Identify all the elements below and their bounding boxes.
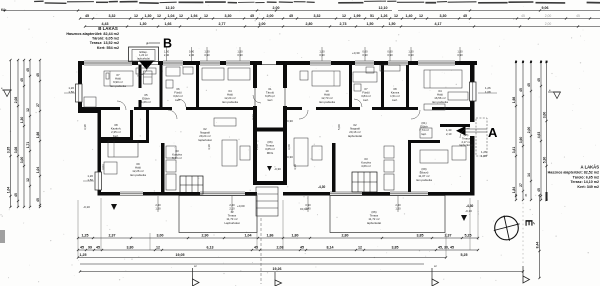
svg-text:0,90: 0,90	[408, 53, 414, 57]
svg-text:B: B	[163, 37, 172, 51]
labels 45 45 right bottom	[514, 193, 528, 197]
svg-text:2,40: 2,40	[155, 203, 161, 207]
window size labels right lower A	[481, 150, 487, 158]
window left wall upper with frame	[76, 84, 83, 102]
svg-text:45: 45	[537, 78, 541, 82]
level labels at steps	[83, 119, 472, 213]
svg-text:3,38: 3,38	[83, 124, 87, 130]
svg-text:0,90: 0,90	[319, 53, 325, 57]
svg-text:9,06: 9,06	[542, 6, 549, 10]
scan blob left edge	[0, 230, 5, 243]
svg-text:12: 12	[134, 14, 138, 18]
partition A konyha wall	[332, 143, 336, 192]
window size labels right A	[478, 86, 497, 94]
right dimension column line 1	[512, 61, 517, 201]
middle strip east wall	[283, 61, 287, 185]
svg-text:6,13: 6,13	[207, 245, 214, 249]
faint right top labels	[521, 14, 580, 26]
svg-text:45: 45	[521, 14, 525, 18]
partition A horizontal hallway	[287, 107, 470, 110]
svg-text:3,08: 3,08	[14, 147, 18, 154]
svg-text:45: 45	[524, 193, 528, 197]
dashed guide line right	[522, 190, 524, 264]
partition B between halo07 and entry	[139, 65, 142, 107]
svg-text:45: 45	[14, 193, 18, 197]
svg-text:2,37: 2,37	[445, 233, 452, 237]
svg-text:1,71: 1,71	[26, 142, 30, 149]
svg-text:14: 14	[527, 173, 531, 177]
dimension line top rooms row	[84, 22, 600, 28]
level marker small filled B terrace	[111, 204, 117, 210]
svg-text:1,99: 1,99	[354, 14, 361, 18]
left dimension column line 2	[14, 59, 19, 208]
svg-text:45: 45	[36, 73, 40, 77]
dimension line bottom segments row	[77, 245, 479, 251]
dining table B	[180, 176, 203, 194]
svg-text:+0,00: +0,00	[237, 204, 245, 208]
svg-text:1,50: 1,50	[457, 50, 463, 54]
sofa A	[294, 138, 322, 166]
svg-text:0,90: 0,90	[237, 53, 243, 57]
svg-text:+0,30: +0,30	[352, 51, 360, 55]
svg-text:-0,30: -0,30	[286, 119, 293, 123]
svg-text:4,10: 4,10	[207, 144, 211, 150]
partition A entry wall	[440, 124, 470, 127]
svg-text:0,90: 0,90	[204, 53, 210, 57]
partition B bath/halo04	[196, 65, 199, 110]
svg-text:0,90: 0,90	[387, 53, 393, 57]
svg-text:12: 12	[204, 14, 208, 18]
scan artifact top line	[34, 1, 600, 3]
svg-text:8,44: 8,44	[535, 242, 539, 249]
left dimension column line 4	[26, 59, 31, 208]
svg-text:2,40: 2,40	[164, 53, 170, 57]
svg-text:2,40: 2,40	[395, 203, 401, 207]
svg-text:12: 12	[358, 245, 362, 249]
svg-text:1,84: 1,84	[512, 187, 516, 194]
window right wall A with frame	[470, 82, 477, 101]
window middle strip west	[253, 88, 257, 106]
svg-text:45: 45	[85, 14, 89, 18]
svg-text:64: 64	[1, 8, 5, 12]
svg-text:12: 12	[26, 108, 30, 112]
right dimension column line 3	[527, 61, 532, 201]
partition B room09 wall	[101, 110, 149, 143]
svg-text:45: 45	[36, 198, 40, 202]
dimension line bottom 19,26	[79, 267, 524, 273]
svg-text:2,37: 2,37	[109, 233, 116, 237]
svg-text:99: 99	[88, 245, 92, 249]
extension guide lines	[78, 198, 478, 258]
letter B	[146, 37, 172, 51]
wardrobe A	[424, 104, 445, 110]
outer wall right (A) lower	[470, 136, 475, 196]
left dimension column line 5	[36, 59, 41, 208]
window size labels left lower	[83, 174, 94, 182]
svg-text:2,00: 2,00	[527, 127, 531, 134]
svg-text:3,32: 3,32	[314, 14, 321, 18]
svg-text:1,50: 1,50	[395, 207, 401, 211]
label 1,40 near A door	[446, 128, 452, 136]
svg-text:(05): (05)	[464, 133, 469, 137]
svg-text:3,30: 3,30	[440, 14, 447, 18]
porch A label	[459, 133, 472, 147]
svg-text:3,85: 3,85	[392, 245, 399, 249]
terrace A outline	[330, 196, 445, 233]
letter A	[488, 125, 498, 140]
bed room09 B	[108, 141, 138, 157]
kitchen counter B	[166, 146, 176, 190]
survey flag 1	[193, 264, 200, 286]
interior rotated dimensions	[83, 114, 473, 170]
svg-text:Kert: 349 m2: Kert: 349 m2	[577, 185, 599, 189]
right dimension column line 5	[542, 61, 547, 201]
svg-text:12: 12	[394, 14, 398, 18]
svg-text:12: 12	[157, 14, 161, 18]
svg-text:Kert: 554 m2: Kert: 554 m2	[97, 46, 119, 50]
svg-text:1,80: 1,80	[292, 233, 299, 237]
svg-text:2,80: 2,80	[342, 233, 349, 237]
level marker triangle right	[548, 88, 561, 99]
partition A kamra/halo04	[406, 65, 409, 110]
dimension line bottom rooms row	[77, 233, 479, 239]
terrace A label	[367, 210, 381, 225]
svg-text:5,25: 5,25	[461, 253, 468, 257]
svg-text:4,17: 4,17	[435, 22, 442, 26]
svg-text:2,08: 2,08	[277, 245, 284, 249]
svg-text:8,14: 8,14	[327, 245, 334, 249]
svg-text:0,90: 0,90	[362, 53, 368, 57]
level marker triangle left	[1, 86, 12, 97]
label 4,30 right of steps	[318, 185, 473, 208]
svg-text:12: 12	[26, 178, 30, 182]
svg-text:1,25: 1,25	[82, 233, 89, 237]
dimension line top overall right	[379, 6, 600, 12]
svg-text:0,90: 0,90	[457, 53, 463, 57]
svg-text:45: 45	[20, 78, 24, 82]
svg-text:3,85: 3,85	[417, 233, 424, 237]
svg-text:1,26: 1,26	[381, 14, 388, 18]
svg-text:1,04: 1,04	[245, 233, 252, 237]
svg-text:45: 45	[514, 193, 518, 197]
svg-text:1,50: 1,50	[408, 50, 414, 54]
svg-text:1,25: 1,25	[80, 253, 87, 257]
compass north letter	[523, 220, 536, 227]
svg-text:1,40: 1,40	[406, 14, 413, 18]
outer wall top	[78, 61, 477, 65]
svg-text:2,00: 2,00	[267, 14, 274, 18]
middle strip divider wall	[257, 128, 283, 132]
svg-text:2,00: 2,00	[545, 22, 552, 26]
bed room04 A	[424, 70, 468, 100]
room labels	[110, 73, 448, 182]
svg-text:2,77: 2,77	[219, 22, 226, 26]
svg-text:45: 45	[576, 14, 580, 18]
svg-text:É: É	[523, 220, 536, 227]
svg-text:12: 12	[342, 14, 346, 18]
svg-text:±0,00: ±0,00	[300, 207, 308, 211]
svg-text:1,98: 1,98	[512, 97, 516, 104]
svg-text:7,33: 7,33	[251, 114, 255, 120]
outer wall right (A) upper	[470, 61, 475, 122]
window size labels below bottom wall	[155, 196, 401, 212]
dimension line bottom extra	[80, 263, 424, 265]
svg-text:45: 45	[96, 245, 100, 249]
bath fixtures A	[353, 67, 377, 91]
text block A LAKAS area summary	[548, 165, 600, 190]
svg-text:Terasz: Terasz	[462, 136, 471, 140]
svg-text:0,90: 0,90	[189, 50, 195, 54]
left dimension column line 1	[6, 59, 11, 208]
door middle strip top	[262, 61, 276, 65]
dimension line top segments row	[79, 14, 600, 20]
svg-text:45: 45	[537, 188, 541, 192]
svg-text:1,30: 1,30	[145, 14, 152, 18]
svg-text:Tároló: 6,65 m2: Tároló: 6,65 m2	[573, 175, 599, 179]
svg-text:2,40: 2,40	[229, 203, 235, 207]
bed room04 B	[202, 68, 250, 80]
svg-text:19,05: 19,05	[176, 253, 185, 257]
svg-text:3,60: 3,60	[519, 137, 523, 144]
svg-text:0,60: 0,60	[362, 50, 368, 54]
svg-text:45: 45	[519, 88, 523, 92]
label 64 top left	[1, 8, 5, 12]
partition B kitchen wall	[161, 143, 165, 192]
svg-text:12,10: 12,10	[166, 6, 175, 10]
svg-text:2,80: 2,80	[306, 22, 313, 26]
svg-text:27: 27	[36, 103, 40, 107]
openings on bottom walls	[120, 192, 428, 196]
partition B kazan room	[101, 110, 133, 140]
svg-text:A LAKÁS: A LAKÁS	[581, 165, 600, 170]
svg-text:45: 45	[289, 14, 293, 18]
svg-text:12,10: 12,10	[379, 6, 388, 10]
vertical dimension 8,44	[535, 194, 540, 279]
bath fixtures B	[166, 67, 193, 88]
kamra shelves A	[380, 65, 400, 71]
svg-text:2,17 m²: 2,17 m²	[461, 140, 470, 144]
svg-text:45: 45	[527, 83, 531, 87]
svg-text:12: 12	[156, 245, 160, 249]
middle strip lower wall	[253, 181, 287, 185]
svg-text:1,80: 1,80	[255, 144, 259, 150]
svg-text:5,00: 5,00	[337, 124, 341, 130]
svg-text:45: 45	[300, 245, 304, 249]
survey flag 4	[523, 266, 530, 283]
svg-text:0,60: 0,60	[387, 50, 393, 54]
svg-text:45: 45	[254, 245, 258, 249]
survey flag 3	[432, 264, 439, 286]
entrance B canopy box	[129, 47, 159, 62]
svg-text:Hasznos alapterület: 82,52 m2: Hasznos alapterület: 82,52 m2	[548, 171, 599, 175]
svg-text:1,50: 1,50	[87, 178, 93, 182]
window size labels above top wall	[164, 47, 463, 61]
etkezo table A	[420, 146, 466, 163]
svg-text:1,50: 1,50	[68, 90, 74, 94]
outer wall step (B)	[78, 110, 101, 114]
svg-text:45: 45	[250, 14, 254, 18]
svg-text:3,03: 3,03	[101, 164, 105, 170]
svg-text:45: 45	[26, 68, 30, 72]
right dimension column line 4	[537, 61, 542, 201]
svg-text:4,30: 4,30	[293, 164, 297, 170]
svg-text:Tároló: 6,05 m2: Tároló: 6,05 m2	[92, 37, 119, 41]
svg-text:1,94: 1,94	[191, 14, 198, 18]
terrace B outline	[179, 196, 257, 233]
svg-text:Lapburkolat: Lapburkolat	[224, 221, 239, 225]
outer wall bottom B unit	[98, 192, 258, 196]
tick bar right bottom	[546, 192, 548, 201]
svg-text:3,80: 3,80	[127, 245, 134, 249]
svg-text:1,50: 1,50	[389, 22, 396, 26]
svg-text:1,30: 1,30	[20, 117, 24, 124]
svg-text:3,41: 3,41	[512, 147, 516, 154]
svg-text:12: 12	[179, 14, 183, 18]
svg-text:Terasz: 14,10 m2: Terasz: 14,10 m2	[570, 180, 599, 184]
desk room09 B	[104, 162, 117, 174]
svg-text:2,10: 2,10	[446, 132, 452, 136]
svg-text:4,63: 4,63	[537, 132, 541, 139]
svg-text:-0,10: -0,10	[465, 209, 472, 213]
svg-text:51: 51	[370, 14, 374, 18]
svg-text:-0,30: -0,30	[286, 155, 293, 159]
left dimension column line 3	[20, 59, 25, 208]
svg-text:2,40: 2,40	[189, 53, 195, 57]
svg-text:5,30: 5,30	[542, 157, 546, 164]
svg-text:1,04: 1,04	[6, 187, 10, 194]
svg-text:1,98: 1,98	[36, 132, 40, 139]
svg-text:1,30: 1,30	[140, 22, 147, 26]
partition B entry/bath	[160, 65, 163, 110]
text block B LAKAS area summary	[66, 26, 119, 50]
svg-text:2,08: 2,08	[14, 97, 18, 104]
appliance A entry	[420, 128, 432, 138]
svg-text:3,00: 3,00	[542, 112, 546, 119]
svg-text:3,30: 3,30	[225, 14, 232, 18]
svg-text:1,86: 1,86	[267, 233, 274, 237]
outer wall left upper (B)	[78, 61, 82, 113]
window left wall lower with frame	[95, 172, 102, 190]
svg-text:3,00: 3,00	[20, 157, 24, 164]
wc B	[144, 71, 153, 84]
svg-text:19,26: 19,26	[273, 267, 282, 271]
partition A etkezo wall	[408, 140, 440, 192]
partition B horizontal hallway	[82, 107, 253, 110]
svg-text:-4,30: -4,30	[466, 204, 473, 208]
door opening entrance B	[138, 61, 158, 65]
dimension line bottom 19,05	[77, 253, 468, 259]
svg-text:Hasznos alapterület: 82,44 m2: Hasznos alapterület: 82,44 m2	[66, 32, 119, 36]
right column top markers	[515, 61, 547, 63]
svg-text:-4,30: -4,30	[318, 185, 325, 189]
partition A bath/kamra	[381, 65, 384, 110]
entrance B arrow	[139, 61, 154, 70]
svg-text:1,04: 1,04	[168, 14, 175, 18]
level label +0,30	[352, 51, 360, 55]
svg-text:2,00: 2,00	[273, 6, 280, 10]
svg-text:B LAKÁS: B LAKÁS	[98, 26, 118, 31]
bed room10 A	[300, 71, 340, 86]
svg-text:lapburkolat: lapburkolat	[137, 56, 150, 60]
partition A halo10 east	[349, 65, 352, 110]
terrace B label	[224, 210, 239, 225]
outer wall left lower (B)	[98, 110, 102, 196]
right dimension column line 2	[519, 61, 524, 201]
svg-text:12: 12	[419, 14, 423, 18]
svg-text:2,00: 2,00	[545, 14, 552, 18]
wardrobe room07 B	[84, 68, 156, 107]
svg-text:A: A	[488, 125, 498, 140]
svg-text:1,08: 1,08	[485, 90, 491, 94]
window size labels left upper	[64, 86, 75, 94]
compass circle	[494, 216, 520, 241]
dashed guide line middle	[260, 218, 262, 284]
porch A dashed outline	[476, 118, 487, 156]
entrance A arrow	[456, 126, 487, 136]
svg-text:45: 45	[80, 245, 84, 249]
windows on top wall	[84, 61, 455, 65]
svg-text:2,00: 2,00	[259, 22, 266, 26]
sofa B	[214, 118, 250, 166]
svg-text:3,32: 3,32	[109, 14, 116, 18]
svg-text:-0,10: -0,10	[83, 205, 90, 209]
bed room07 B	[104, 71, 133, 86]
door arcs	[117, 65, 470, 138]
svg-text:5,25: 5,25	[465, 233, 472, 237]
svg-text:1,66: 1,66	[165, 22, 172, 26]
svg-text:3,35: 3,35	[6, 147, 10, 154]
svg-text:27: 27	[519, 183, 523, 187]
svg-text:3,60: 3,60	[287, 144, 291, 150]
svg-text:3,03: 3,03	[469, 144, 473, 150]
survey flag 2	[275, 272, 282, 286]
svg-text:-0,30: -0,30	[274, 167, 281, 171]
svg-text:lapburkolat: lapburkolat	[367, 221, 381, 225]
svg-text:1,04: 1,04	[36, 167, 40, 174]
dining table A	[352, 172, 377, 192]
svg-text:1,50: 1,50	[367, 22, 374, 26]
middle strip west wall	[253, 61, 257, 185]
svg-text:1,50: 1,50	[237, 50, 243, 54]
svg-text:1,50: 1,50	[204, 50, 210, 54]
svg-text:2,90: 2,90	[202, 233, 209, 237]
window middle strip east	[283, 88, 287, 106]
entry steps middle	[256, 187, 278, 216]
dimension line top overall left	[3, 6, 392, 12]
svg-text:Terasz: 13,52 m2: Terasz: 13,52 m2	[90, 41, 119, 45]
svg-text:3,00: 3,00	[157, 233, 164, 237]
kitchen counter A	[384, 146, 394, 190]
svg-text:2,73: 2,73	[340, 22, 347, 26]
svg-text:1,50: 1,50	[319, 50, 325, 54]
outer wall bottom A unit	[283, 192, 472, 196]
svg-text:1,50: 1,50	[155, 207, 161, 211]
svg-text:45: 45	[463, 14, 467, 18]
level marker small filled A terrace	[461, 215, 467, 221]
level marker small strip	[267, 166, 281, 171]
